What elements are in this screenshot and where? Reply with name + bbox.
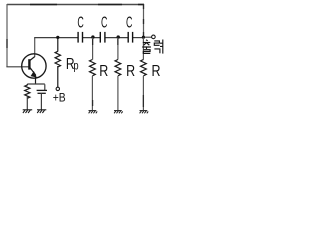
capacitor C1 — [78, 32, 82, 43]
wire: feedback top rail — [7, 4, 144, 6]
node junction dot Rp — [56, 36, 59, 39]
svg-text:p: p — [73, 59, 78, 72]
ground R3 — [140, 111, 149, 114]
wire: base lead — [6, 66, 29, 68]
capacitor C2 — [100, 32, 105, 43]
resistor R2 — [115, 38, 121, 110]
ground R2 — [114, 111, 123, 114]
label output 출력 (hand-drawn hangul) — [142, 40, 163, 54]
ground Re — [23, 110, 33, 113]
wire: feedback right vertical — [143, 4, 145, 37]
node junction dot 3 — [142, 36, 145, 39]
resistor R3 — [141, 38, 147, 110]
svg-text:R: R — [99, 63, 108, 81]
ground Ce — [37, 110, 46, 113]
svg-text:C: C — [101, 14, 107, 31]
svg-text:C: C — [77, 14, 83, 31]
wire: output stub — [144, 36, 152, 38]
wire: feedback left vertical — [6, 4, 8, 67]
ground R1 — [89, 111, 98, 114]
resistor R1 — [90, 38, 96, 110]
svg-text:R: R — [126, 63, 135, 81]
terminal +B — [56, 87, 59, 90]
wire: C3 to output node — [132, 37, 143, 39]
wire: emitter bottom bar — [27, 83, 45, 85]
svg-text:C: C — [126, 14, 132, 31]
terminal output — [152, 35, 156, 39]
wire: scan-dark segments on R columns — [93, 39, 144, 107]
node junction dot 1 — [91, 35, 94, 38]
wire: main signal rail collector to C1 — [34, 37, 78, 39]
resistor Re (emitter) — [25, 84, 30, 110]
wire: C1 to C2 — [82, 37, 100, 39]
svg-text:+B: +B — [53, 92, 66, 105]
wire: C2 to C3 — [105, 37, 128, 39]
capacitor Ce (bypass) — [37, 84, 47, 109]
wire: collector riser — [34, 38, 36, 57]
node junction dot 2 — [117, 35, 120, 38]
svg-text:R: R — [152, 63, 161, 81]
resistor Rp — [55, 38, 60, 88]
capacitor C3 — [128, 32, 132, 43]
transistor Q1 — [22, 54, 46, 85]
